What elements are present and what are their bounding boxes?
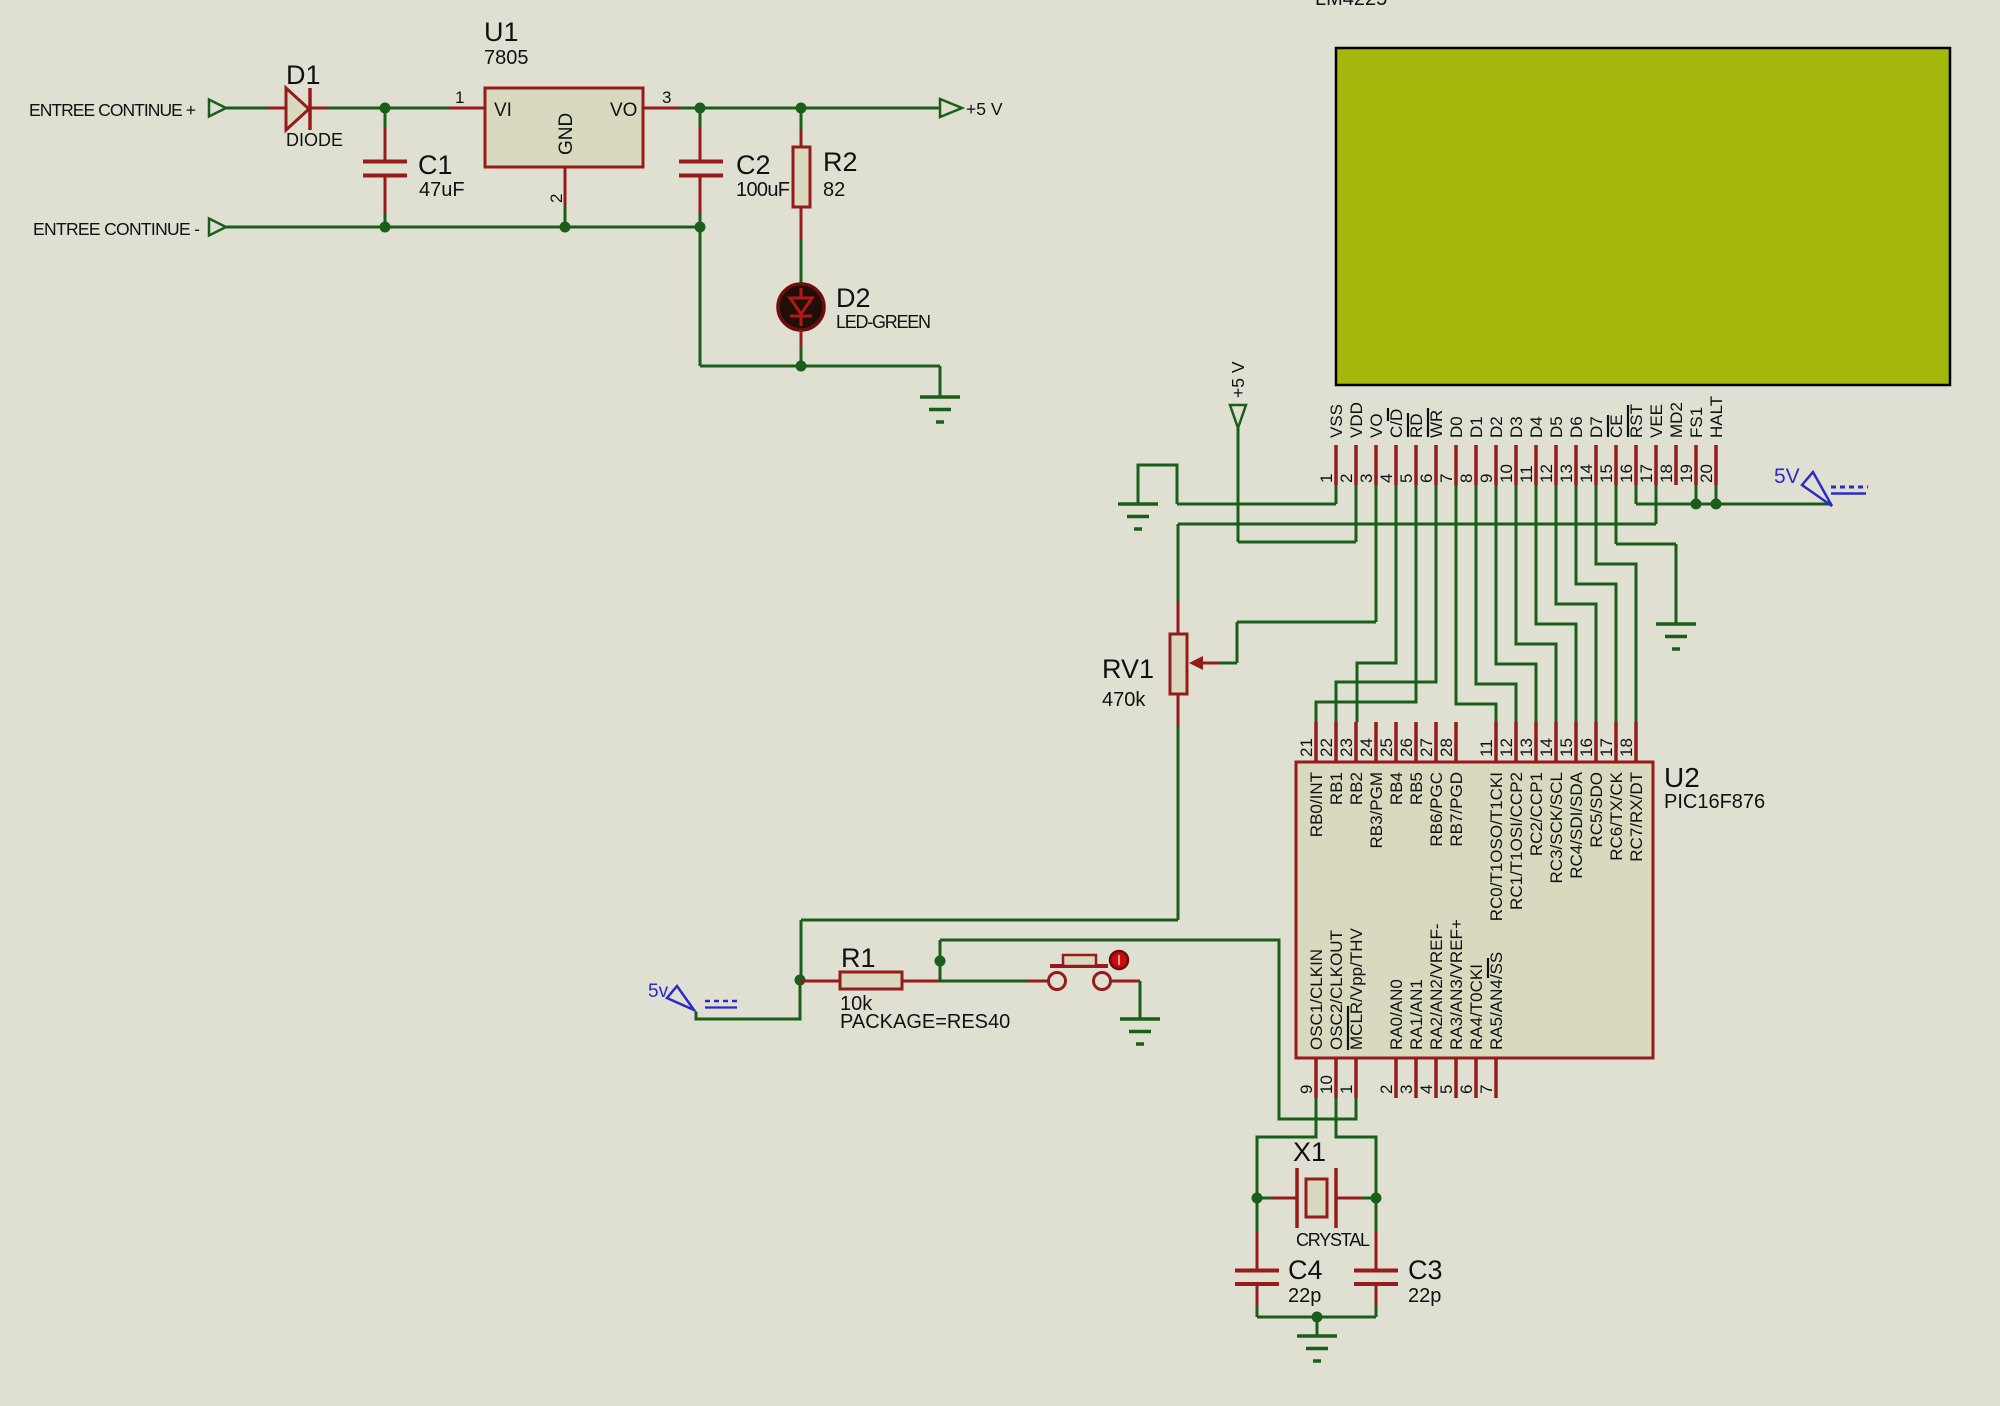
pin 6 stub (LCD WR) — [1434, 445, 1438, 485]
pin label RC6/TX/CK — [1607, 771, 1626, 860]
pin label VO — [1367, 413, 1386, 438]
svg-text:RB1: RB1 — [1327, 772, 1346, 805]
value 7805 — [484, 47, 529, 69]
svg-text:D1: D1 — [286, 60, 321, 90]
pin 15 stub (LCD CE) — [1614, 445, 1618, 485]
pin number 3 (U1) — [662, 88, 671, 107]
svg-text:D2: D2 — [836, 283, 871, 313]
pin number 15 (U2 top) — [1557, 738, 1576, 757]
LCD display LM4225 screen — [1336, 48, 1950, 385]
svg-text:11: 11 — [1477, 739, 1496, 757]
label RV1 — [1102, 654, 1154, 684]
pin 18 stub (LCD MD2) — [1674, 445, 1678, 485]
capacitor C2 — [679, 108, 723, 227]
svg-text:14: 14 — [1577, 464, 1596, 483]
svg-text:C2: C2 — [736, 150, 771, 180]
value PIC16F876 — [1664, 791, 1765, 813]
terminal 5V (right) — [1802, 472, 1868, 506]
pin 11 stub (LCD D4) — [1534, 445, 1538, 485]
pin 13 stub (U2 RC2/CCP1) — [1534, 722, 1538, 762]
pin number 20 (LCD) — [1697, 464, 1716, 483]
pin number 1 (U2 bottom) — [1337, 1085, 1356, 1094]
wire HALT to rail — [1715, 485, 1718, 504]
pin 19 stub (LCD FS1) — [1694, 445, 1698, 485]
pin 12 stub (LCD D5) — [1554, 445, 1558, 485]
svg-text:9: 9 — [1477, 474, 1496, 483]
svg-text:MCLR/Vpp/THV: MCLR/Vpp/THV — [1347, 927, 1366, 1050]
pin 8 stub (LCD D1) — [1474, 445, 1478, 485]
pin number 16 (U2 top) — [1577, 738, 1596, 757]
pin number 24 (U2 top) — [1357, 738, 1376, 757]
pin number 8 (LCD) — [1457, 474, 1476, 483]
crystal X1 — [1257, 1168, 1376, 1228]
pin 7 stub (LCD D0) — [1454, 445, 1458, 485]
pin 10 stub (LCD D3) — [1514, 445, 1518, 485]
svg-text:D1: D1 — [1467, 416, 1486, 438]
svg-text:1: 1 — [455, 88, 464, 107]
pin label D2 — [1487, 416, 1506, 438]
pin label RC2/CCP1 — [1527, 772, 1546, 856]
wire RST to 5V rail — [1636, 485, 1831, 504]
svg-text:RA2/AN2/VREF-: RA2/AN2/VREF- — [1427, 923, 1446, 1050]
svg-text:3: 3 — [1397, 1085, 1416, 1094]
pin 2 stub (U2 RA0/AN0) — [1394, 1058, 1398, 1098]
label D2 — [836, 283, 871, 313]
power +5 V arrow — [1230, 405, 1246, 428]
wire D5 to RC5 — [1556, 485, 1596, 722]
wire C2 node down — [699, 227, 702, 366]
junction (LED bottom) — [796, 361, 807, 372]
pin label WR — [1427, 410, 1446, 438]
pin 12 stub (U2 RC1/T1OSI/CCP2) — [1514, 722, 1518, 762]
pin label HALT — [1707, 396, 1726, 438]
pin 16 stub (LCD RST) — [1634, 445, 1638, 485]
pin label RB5 — [1407, 772, 1426, 805]
pin number 10 (LCD) — [1497, 464, 1516, 483]
svg-text:GND: GND — [556, 113, 577, 155]
svg-text:22p: 22p — [1288, 1285, 1321, 1307]
svg-text:4: 4 — [1417, 1085, 1436, 1094]
svg-text:21: 21 — [1297, 738, 1316, 757]
svg-text:D6: D6 — [1567, 416, 1586, 438]
svg-text:ENTREE CONTINUE +: ENTREE CONTINUE + — [29, 100, 196, 120]
pin 16 stub (U2 RC5/SDO) — [1594, 722, 1598, 762]
label U2 — [1664, 762, 1700, 793]
svg-text:7805: 7805 — [484, 47, 529, 69]
value 22p (C3) — [1408, 1285, 1441, 1307]
junction (HALT) — [1711, 499, 1722, 510]
svg-text:18: 18 — [1657, 464, 1676, 483]
pin number 11 (LCD) — [1517, 465, 1536, 483]
label R2 — [823, 147, 858, 177]
svg-text:D5: D5 — [1547, 416, 1566, 438]
svg-text:D7: D7 — [1587, 416, 1606, 438]
svg-text:R2: R2 — [823, 147, 858, 177]
pin 11 stub (U2 RC0/T1OSO/T1CKI) — [1494, 722, 1498, 762]
microcontroller U2 PIC16F876 body — [1296, 762, 1653, 1058]
pin label D6 — [1567, 416, 1586, 438]
junction (C1 bottom) — [380, 222, 391, 233]
wire D0 to RC0 — [1456, 485, 1496, 722]
pin label RC7/RX/DT — [1627, 772, 1646, 862]
svg-text:1: 1 — [1337, 1085, 1356, 1094]
svg-text:+5 V: +5 V — [1228, 361, 1248, 398]
pin 6 stub (U2 RA4/T0CKI) — [1474, 1058, 1478, 1098]
pin number 19 (LCD) — [1677, 464, 1696, 483]
svg-text:RC6/TX/CK: RC6/TX/CK — [1607, 771, 1626, 860]
overline on RD — [1407, 413, 1409, 437]
pin label RA3/AN3/VREF+ — [1447, 919, 1466, 1050]
button actuator (red) — [1110, 951, 1128, 969]
pin 26 stub (U2 RB5) — [1414, 722, 1418, 762]
pin label RB2 — [1347, 772, 1366, 805]
pin number 12 (LCD) — [1537, 464, 1556, 483]
svg-text:RB0/INT: RB0/INT — [1307, 772, 1326, 837]
pin number 4 (LCD) — [1377, 474, 1396, 483]
svg-text:15: 15 — [1597, 464, 1616, 483]
pin number 3 (LCD) — [1357, 474, 1376, 483]
svg-text:6: 6 — [1417, 474, 1436, 483]
junction (R2 top) — [796, 103, 807, 114]
resistor R2 — [793, 108, 810, 284]
value 470k — [1102, 689, 1146, 711]
wire CE to ground — [1616, 485, 1676, 624]
ground (crystal) — [1297, 1336, 1337, 1361]
svg-text:3: 3 — [662, 88, 671, 107]
svg-text:D4: D4 — [1527, 416, 1546, 438]
pin number 21 (U2 top) — [1297, 738, 1316, 757]
pin label D1 — [1467, 416, 1486, 438]
svg-text:1: 1 — [1317, 474, 1336, 483]
ground (LCD VSS) — [1118, 504, 1158, 529]
svg-text:C4: C4 — [1288, 1255, 1323, 1285]
wire RD to RB0 — [1316, 485, 1416, 722]
node ENTREE CONTINUE - label — [33, 219, 200, 239]
overline on C/D — [1387, 408, 1389, 421]
pin 27 stub (U2 RB6/PGC) — [1434, 722, 1438, 762]
svg-text:D3: D3 — [1507, 416, 1526, 438]
svg-text:RB4: RB4 — [1387, 772, 1406, 805]
svg-text:CRYSTAL: CRYSTAL — [1296, 1230, 1370, 1250]
svg-text:RB5: RB5 — [1407, 772, 1426, 805]
pin 5 stub (LCD RD) — [1414, 445, 1418, 485]
svg-text:15: 15 — [1557, 738, 1576, 757]
pin 25 stub (U2 RB4) — [1394, 722, 1398, 762]
pin 4 stub (LCD C/D) — [1394, 445, 1398, 485]
pin label VEE — [1647, 404, 1666, 438]
pin label RC1/T1OSI/CCP2 — [1507, 772, 1526, 910]
pin label RC5/SDO — [1587, 772, 1606, 848]
wire D2 to RC2 — [1496, 485, 1536, 722]
pin number 13 (LCD) — [1557, 464, 1576, 483]
pin number 9 (LCD) — [1477, 474, 1496, 483]
pin number 11 (U2 top) — [1477, 739, 1496, 757]
junction node A (D1/C1) — [380, 103, 391, 114]
pin 1 stub (LCD VSS) — [1334, 445, 1338, 485]
svg-text:RV1: RV1 — [1102, 654, 1154, 684]
pin 23 stub (U2 RB2) — [1354, 722, 1358, 762]
capacitor C4 — [1235, 1198, 1279, 1317]
pin number 23 (U2 top) — [1337, 738, 1356, 757]
pin number 27 (U2 top) — [1417, 738, 1436, 757]
pin 13 stub (LCD D6) — [1574, 445, 1578, 485]
overline on RST — [1627, 405, 1629, 437]
pin number 6 (LCD) — [1417, 474, 1436, 483]
pin label VDD — [1347, 402, 1366, 438]
wire to crystal ground — [1316, 1317, 1319, 1336]
svg-text:RC3/SCK/SCL: RC3/SCK/SCL — [1547, 772, 1566, 883]
label PACKAGE=RES40 — [840, 1011, 1010, 1033]
svg-text:16: 16 — [1577, 738, 1596, 757]
wire D6 to RC6 — [1576, 485, 1616, 722]
junction (C2 bottom) — [695, 222, 706, 233]
svg-text:RA1/AN1: RA1/AN1 — [1407, 979, 1426, 1050]
wire 5v to R1 — [696, 980, 800, 1019]
svg-text:HALT: HALT — [1707, 396, 1726, 438]
svg-text:U1: U1 — [484, 17, 519, 47]
pin number 15 (LCD) — [1597, 464, 1616, 483]
svg-text:9: 9 — [1297, 1085, 1316, 1094]
svg-text:D2: D2 — [1487, 416, 1506, 438]
pin number 18 (LCD) — [1657, 464, 1676, 483]
wire OSC1 to X1 — [1257, 1098, 1316, 1198]
pin label RC0/T1OSO/T1CKI — [1487, 772, 1506, 921]
svg-text:20: 20 — [1697, 464, 1716, 483]
svg-text:RB3/PGM: RB3/PGM — [1367, 772, 1386, 849]
svg-text:6: 6 — [1457, 1085, 1476, 1094]
svg-text:PACKAGE=RES40: PACKAGE=RES40 — [840, 1011, 1010, 1033]
svg-text:D0: D0 — [1447, 416, 1466, 438]
pin 14 stub (LCD D7) — [1594, 445, 1598, 485]
wire MCLR net up — [939, 940, 942, 981]
label LED-GREEN — [836, 312, 931, 332]
svg-text:RC5/SDO: RC5/SDO — [1587, 772, 1606, 848]
svg-text:VDD: VDD — [1347, 402, 1366, 438]
svg-text:12: 12 — [1537, 464, 1556, 483]
svg-text:8: 8 — [1457, 474, 1476, 483]
svg-text:DIODE: DIODE — [286, 130, 343, 150]
pin number 18 (U2 top) — [1617, 738, 1636, 757]
svg-text:RB7/PGD: RB7/PGD — [1447, 772, 1466, 847]
junction (X1 left) — [1252, 1193, 1263, 1204]
diode D1 — [268, 88, 327, 130]
overline on WR — [1427, 408, 1429, 437]
svg-text:5V: 5V — [1774, 465, 1800, 488]
wire button to ground — [1139, 981, 1142, 1019]
pin label C/D — [1387, 409, 1406, 438]
pin 14 stub (U2 RC3/SCK/SCL) — [1554, 722, 1558, 762]
svg-text:RST: RST — [1627, 404, 1646, 438]
label 5v (left) — [648, 981, 669, 1002]
svg-text:17: 17 — [1637, 464, 1656, 483]
label C4 — [1288, 1255, 1323, 1285]
value 22p (C4) — [1288, 1285, 1321, 1307]
pin number 3 (U2 bottom) — [1397, 1085, 1416, 1094]
svg-text:470k: 470k — [1102, 689, 1146, 711]
pin 18 stub (U2 RC7/RX/DT) — [1634, 722, 1638, 762]
pin label MD2 — [1667, 402, 1686, 438]
svg-text:5: 5 — [1437, 1085, 1456, 1094]
svg-text:LED-GREEN: LED-GREEN — [836, 312, 931, 332]
wire bottom rail — [226, 226, 700, 229]
wire ground run — [700, 365, 940, 368]
pin label D4 — [1527, 416, 1546, 438]
pin label FS1 — [1687, 407, 1706, 438]
pin number 10 (U2 bottom) — [1317, 1075, 1336, 1094]
svg-text:25: 25 — [1377, 738, 1396, 757]
svg-text:RA0/AN0: RA0/AN0 — [1387, 979, 1406, 1050]
label U1 — [484, 17, 519, 47]
svg-text:+5 V: +5 V — [966, 99, 1003, 119]
svg-text:2: 2 — [1377, 1085, 1396, 1094]
pin 1 stub (U2 MCLR/Vpp/THV) — [1354, 1058, 1358, 1098]
svg-text:VO: VO — [610, 100, 637, 121]
svg-text:RA3/AN3/VREF+: RA3/AN3/VREF+ — [1447, 919, 1466, 1050]
svg-text:2: 2 — [1337, 474, 1356, 483]
wire FS1 to rail — [1695, 485, 1698, 504]
resistor R1 — [800, 972, 940, 989]
svg-text:100uF: 100uF — [736, 179, 790, 201]
pin number 5 (LCD) — [1397, 474, 1416, 483]
pin 3 stub (U2 RA1/AN1) — [1414, 1058, 1418, 1098]
pin number 2 (LCD) — [1337, 474, 1356, 483]
svg-text:RC1/T1OSI/CCP2: RC1/T1OSI/CCP2 — [1507, 772, 1526, 910]
wire U1 pin2 GND — [564, 167, 567, 227]
capacitor C3 — [1354, 1198, 1398, 1317]
svg-text:7: 7 — [1477, 1085, 1496, 1094]
svg-text:RC4/SDI/SDA: RC4/SDI/SDA — [1567, 771, 1586, 878]
pin label RC4/SDI/SDA — [1567, 771, 1586, 878]
junction (R1 left node) — [795, 975, 806, 986]
wire WR to RB1 — [1336, 485, 1436, 722]
svg-text:RD: RD — [1407, 413, 1426, 438]
svg-text:VI: VI — [494, 100, 512, 121]
pin label D0 — [1447, 416, 1466, 438]
pin 22 stub (U2 RB1) — [1334, 722, 1338, 762]
pin 10 stub (U2 OSC2/CLKOUT) — [1334, 1058, 1338, 1098]
terminal input ENTREE CONTINUE + — [209, 100, 226, 117]
wire VSS to ground rail — [1177, 485, 1336, 504]
junction (X1 right) — [1371, 1193, 1382, 1204]
node ENTREE CONTINUE + label — [29, 100, 196, 120]
svg-text:VSS: VSS — [1327, 404, 1346, 438]
pin number 1 (U1) — [455, 88, 464, 107]
pin label RB6/PGC — [1427, 772, 1446, 847]
pin label RB4 — [1387, 772, 1406, 805]
label R1 — [841, 943, 876, 973]
pin 7 stub (U2 RA5/AN4/SS) — [1494, 1058, 1498, 1098]
svg-text:7: 7 — [1437, 474, 1456, 483]
pin label RA5/AN4/SS — [1487, 952, 1506, 1050]
svg-text:OSC2/CLKOUT: OSC2/CLKOUT — [1327, 930, 1346, 1050]
svg-text:82: 82 — [823, 179, 845, 201]
svg-text:R1: R1 — [841, 943, 876, 973]
label D1 — [286, 60, 321, 90]
svg-text:17: 17 — [1597, 738, 1616, 757]
pin 9 stub (U2 OSC1/CLKIN) — [1314, 1058, 1318, 1098]
pin number 25 (U2 top) — [1377, 738, 1396, 757]
ground (CE) — [1656, 624, 1696, 649]
svg-text:11: 11 — [1517, 465, 1536, 483]
svg-text:MD2: MD2 — [1667, 402, 1686, 438]
value 100uF — [736, 179, 790, 201]
pin number 14 (U2 top) — [1537, 738, 1556, 757]
svg-text:CE: CE — [1607, 414, 1626, 438]
pin number 12 (U2 top) — [1497, 738, 1516, 757]
pin number 4 (U2 bottom) — [1417, 1085, 1436, 1094]
svg-text:LM4225: LM4225 — [1315, 0, 1387, 10]
pin number 2 (U2 bottom) — [1377, 1085, 1396, 1094]
wire +5V rail — [700, 107, 940, 110]
pin label CE — [1607, 414, 1626, 438]
pin 2 stub (LCD VDD) — [1354, 445, 1358, 485]
svg-text:VO: VO — [1367, 413, 1386, 438]
pin number 17 (LCD) — [1637, 464, 1656, 483]
ground (power section) — [920, 397, 960, 422]
wire R1 to button — [940, 980, 1028, 983]
pin label OSC1/CLKIN — [1307, 949, 1326, 1050]
wire MCLR route — [940, 940, 1356, 1119]
svg-text:ENTREE CONTINUE -: ENTREE CONTINUE - — [33, 219, 200, 239]
svg-text:VEE: VEE — [1647, 404, 1666, 438]
pin number 9 (U2 bottom) — [1297, 1085, 1316, 1094]
svg-text:24: 24 — [1357, 738, 1376, 757]
wire VO to RV1 wiper — [1220, 485, 1376, 663]
pin label D7 — [1587, 416, 1606, 438]
pin number 28 (U2 top) — [1437, 738, 1456, 757]
svg-text:13: 13 — [1557, 464, 1576, 483]
pin label RB0/INT — [1307, 772, 1326, 837]
wire D1 to RC1 — [1476, 485, 1516, 722]
label 5V (right) — [1774, 465, 1800, 488]
terminal input ENTREE CONTINUE - — [209, 219, 226, 236]
svg-text:13: 13 — [1517, 738, 1536, 757]
pin label RB7/PGD — [1447, 772, 1466, 847]
pin number 7 (U2 bottom) — [1477, 1085, 1496, 1094]
wire OSC2 to X1 — [1336, 1098, 1376, 1198]
svg-text:C1: C1 — [418, 150, 453, 180]
pin number 13 (U2 top) — [1517, 738, 1536, 757]
pin label D3 — [1507, 416, 1526, 438]
pin label RA0/AN0 — [1387, 979, 1406, 1050]
overline on CE — [1607, 415, 1609, 437]
svg-text:RC7/RX/DT: RC7/RX/DT — [1627, 772, 1646, 862]
pin label RST — [1627, 404, 1646, 438]
label C3 — [1408, 1255, 1443, 1285]
svg-text:5: 5 — [1397, 474, 1416, 483]
pin 3 stub (LCD VO) — [1374, 445, 1378, 485]
junction (crystal ground) — [1312, 1312, 1323, 1323]
svg-text:28: 28 — [1437, 738, 1456, 757]
pin number 2 (U1) — [547, 194, 566, 203]
junction (FS1) — [1691, 499, 1702, 510]
pin 9 stub (LCD D2) — [1494, 445, 1498, 485]
svg-text:10: 10 — [1317, 1075, 1336, 1094]
push button — [1028, 955, 1140, 990]
svg-text:16: 16 — [1617, 464, 1636, 483]
wire ground jog — [1138, 465, 1177, 504]
label +5 V (vertical) — [1228, 361, 1248, 398]
ground (button) — [1120, 1019, 1160, 1044]
pin number 17 (U2 top) — [1597, 738, 1616, 757]
wire C/D to RB2 — [1357, 485, 1396, 722]
pin number 7 (LCD) — [1437, 474, 1456, 483]
terminal output +5 V — [940, 99, 962, 117]
label CRYSTAL — [1296, 1230, 1370, 1250]
wire RV1 bottom to R1 node — [801, 726, 1178, 980]
label +5 V — [966, 99, 1003, 119]
label C2 — [736, 150, 771, 180]
